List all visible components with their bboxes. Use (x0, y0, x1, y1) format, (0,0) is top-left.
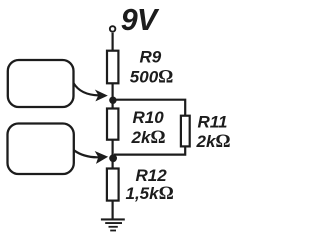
wire terminal to R9 (111, 33, 113, 51)
wire R9 to node A (111, 83, 113, 108)
ground symbol (101, 218, 125, 231)
callout box 2 (8, 124, 74, 175)
wire R11 branch bottom to node B (114, 146, 185, 154)
resistor R9 (107, 51, 118, 84)
svg-text:500Ω: 500Ω (130, 67, 174, 88)
svg-text:9V: 9V (121, 3, 160, 37)
terminal 9V supply (110, 26, 116, 32)
node A junction dot (109, 97, 116, 104)
svg-text:2kΩ: 2kΩ (131, 127, 166, 148)
wire R10 to node B to R12 (111, 140, 113, 169)
svg-text:R11: R11 (198, 113, 228, 132)
wire node A to R11 branch top (113, 100, 185, 116)
svg-text:1,5kΩ: 1,5kΩ (126, 183, 174, 204)
wire R12 to ground (111, 201, 113, 219)
resistor R10 (107, 109, 118, 140)
callout box 1 (8, 60, 74, 107)
resistor R12 (107, 169, 119, 201)
arrow from box 2 to node B (74, 150, 99, 157)
resistor R11 (181, 116, 190, 147)
svg-text:R10: R10 (133, 108, 165, 127)
arrow from box 1 to node A (74, 83, 99, 95)
svg-text:R9: R9 (140, 47, 162, 66)
svg-text:2kΩ: 2kΩ (196, 131, 231, 152)
node B junction dot (109, 154, 117, 162)
